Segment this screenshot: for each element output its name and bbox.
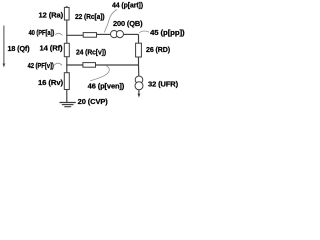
wire node a to Rf xyxy=(66,35,68,43)
wire Ra bottom to node a xyxy=(66,20,68,35)
wire Rc[a] to pump QB xyxy=(97,33,111,35)
svg-text:18 (Qf): 18 (Qf) xyxy=(8,46,30,53)
svg-text:24 (Rc[v]): 24 (Rc[v]) xyxy=(76,50,106,57)
leader 45 xyxy=(139,31,149,33)
wire stub above Ra xyxy=(66,6,68,8)
svg-text:42 (PF[v]): 42 (PF[v]) xyxy=(28,63,54,70)
wire RD bottom to junction xyxy=(138,57,140,65)
UFR branch: junction down to pump xyxy=(138,65,140,77)
resistor R a xyxy=(64,7,69,20)
UFR outflow arrow xyxy=(138,90,140,95)
leader 40 xyxy=(55,33,62,35)
resistor Rc[v] xyxy=(83,63,96,68)
wire Rv to ground xyxy=(66,90,68,103)
svg-text:40 (PF[a]): 40 (PF[a]) xyxy=(29,30,55,37)
svg-text:44 (p[art]): 44 (p[art]) xyxy=(112,3,143,10)
wire Rf to node v xyxy=(66,57,68,65)
svg-text:45 (p[pp]): 45 (p[pp]) xyxy=(150,30,185,37)
ground CVP xyxy=(60,103,76,107)
arterial rail: node a to Rc[a] xyxy=(66,34,83,36)
leader 44 xyxy=(104,10,117,33)
pump UFR (two overlapping circles stacked) xyxy=(135,76,143,84)
venous rail: junction to Rc[v] xyxy=(96,64,139,66)
resistor RD xyxy=(136,43,142,57)
resistor Rv xyxy=(64,73,69,90)
resistor Rf xyxy=(64,43,69,56)
wire Rc[v] to node v xyxy=(66,64,83,66)
svg-text:200 (QB): 200 (QB) xyxy=(113,21,143,28)
svg-text:26 (RD): 26 (RD) xyxy=(146,47,170,54)
flow arrow Qf (left edge, pointing down) xyxy=(3,26,6,68)
svg-text:20 (CVP): 20 (CVP) xyxy=(78,99,108,106)
leader 46 xyxy=(90,65,109,81)
svg-text:12 (Ra): 12 (Ra) xyxy=(39,13,64,20)
svg-text:32 (UFR): 32 (UFR) xyxy=(148,81,178,88)
resistor Rc[a] xyxy=(83,33,96,38)
svg-text:46 (p[ven]): 46 (p[ven]) xyxy=(88,83,125,90)
pump QB (two overlapping circles) xyxy=(111,30,118,37)
wire node v to Rv xyxy=(66,65,68,73)
svg-text:14 (Rf): 14 (Rf) xyxy=(40,46,63,53)
svg-text:22 (Rc[a]): 22 (Rc[a]) xyxy=(75,14,105,21)
wire QB to corner xyxy=(123,33,138,35)
leader 42 xyxy=(54,63,62,65)
svg-text:16 (Rv): 16 (Rv) xyxy=(38,80,63,87)
corner down to RD xyxy=(138,34,140,43)
